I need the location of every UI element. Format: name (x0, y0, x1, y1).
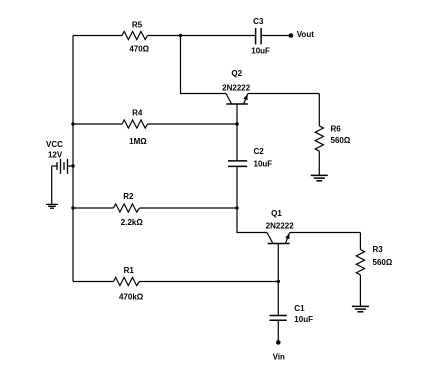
svg-text:R1: R1 (124, 266, 135, 275)
svg-text:470kΩ: 470kΩ (119, 293, 144, 302)
svg-text:R3: R3 (373, 245, 384, 254)
svg-text:Vin: Vin (273, 352, 285, 361)
svg-text:10uF: 10uF (254, 159, 273, 168)
svg-text:1MΩ: 1MΩ (129, 137, 147, 146)
svg-text:C1: C1 (294, 304, 305, 313)
svg-text:R4: R4 (132, 108, 143, 117)
svg-text:470Ω: 470Ω (129, 45, 149, 54)
svg-text:2.2kΩ: 2.2kΩ (121, 218, 144, 227)
svg-text:R2: R2 (123, 192, 134, 201)
svg-text:10uF: 10uF (251, 47, 270, 56)
svg-text:R6: R6 (331, 125, 342, 134)
svg-text:560Ω: 560Ω (373, 258, 393, 267)
svg-text:560Ω: 560Ω (331, 136, 351, 145)
svg-text:10uF: 10uF (294, 315, 313, 324)
svg-text:2N2222: 2N2222 (222, 83, 251, 92)
svg-text:Q2: Q2 (231, 69, 242, 78)
svg-text:Q1: Q1 (271, 209, 282, 218)
svg-text:VCC: VCC (46, 140, 63, 149)
svg-text:C3: C3 (253, 17, 264, 26)
svg-text:C2: C2 (254, 147, 265, 156)
svg-text:12V: 12V (48, 150, 63, 159)
svg-text:R5: R5 (132, 20, 143, 29)
svg-text:2N2222: 2N2222 (266, 222, 295, 231)
svg-text:Vout: Vout (297, 30, 315, 39)
